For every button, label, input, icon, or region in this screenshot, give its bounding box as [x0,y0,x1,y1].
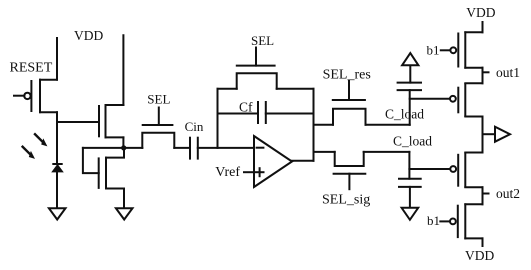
light arrows [23,134,48,159]
wire photodiode to ground [56,172,58,208]
wire feedback left vertical [217,89,219,148]
wire C_load bottom vertical [408,152,410,179]
wire output to SEL_sig [314,151,335,153]
transistor out1 driver (PMOS) [450,83,483,116]
buffer triangle [495,127,510,142]
svg-text:b1: b1 [427,213,440,228]
svg-text:SEL: SEL [147,91,170,106]
capacitor Cin [190,138,198,159]
wire VDD to b1 transistor [482,22,484,32]
svg-text:SEL_sig: SEL_sig [322,193,370,208]
transistor RESET (PMOS) [14,80,57,113]
wire RESET source to photodiode [56,112,58,164]
capacitor Cf [258,102,266,123]
wire photodiode node to M1 gate [57,121,99,123]
svg-text:out2: out2 [496,186,520,201]
wire M2 source to ground [123,189,125,209]
wire capacitor to supply arrow [409,65,411,82]
wire SEL to Cin [174,147,190,149]
buffer tick [483,133,496,135]
ground (M2) [116,208,133,219]
wire C_load top vertical [409,90,411,125]
transistor b1 top (PMOS bias) [441,32,483,67]
transistor M1 (source follower) [99,105,123,137]
power arrow (up triangle) [402,53,418,65]
wire feedback right vertical [313,89,315,161]
transistor SEL_sig [334,152,366,189]
capacitor C_load (top) [398,83,421,91]
wire feedback top right [277,88,314,90]
transistor SEL feedback switch [237,48,277,89]
op-amp U1 [254,136,292,187]
out1 tick [483,71,489,73]
transistor SEL pass gate [142,108,174,148]
svg-text:RESET: RESET [10,60,53,75]
svg-text:SEL_res: SEL_res [323,68,371,83]
photodiode D1 [53,164,62,171]
svg-text:VDD: VDD [74,28,103,43]
svg-text:SEL: SEL [251,33,274,48]
svg-text:out1: out1 [496,65,520,80]
svg-text:Vref: Vref [215,165,240,180]
wire M1 drain to VDD [122,35,124,105]
wire to VDD bottom [482,238,484,246]
wire Vref to non-inverting input [244,171,254,173]
transistor SEL_res [333,81,366,125]
node dot [121,145,126,150]
wire SEL_sig to C_load bottom [364,151,410,153]
svg-text:Cin: Cin [185,119,204,134]
ground (photodiode) [49,208,66,219]
svg-text:C_load: C_load [385,106,424,121]
wire feedback top left [218,88,237,90]
svg-text:VDD: VDD [465,248,494,263]
wire capacitor to ground [409,187,411,208]
wire op-amp output [292,160,314,162]
ground (C_load) [402,208,419,220]
svg-text:Cf: Cf [239,100,253,115]
transistor out2 driver (PMOS) [450,153,482,188]
wire out1 node [482,68,484,84]
wire SEL_res to C_load top [366,124,410,126]
wire gate branch to out2 driver [409,168,449,170]
svg-text:b1: b1 [427,42,440,57]
wire gate branch to out1 driver [410,98,450,100]
wire output to SEL_res [314,124,334,126]
wire RESET drain to VDD [56,38,58,80]
wire Cf right [266,113,314,115]
wire M1 source to node [122,137,124,148]
svg-text:C_load: C_load [393,134,432,149]
wire node line [83,147,142,149]
wire out2 node [482,187,484,204]
wire out1 driver to buffer node [482,117,484,153]
transistor M2 (diode-connected load) [83,148,124,189]
svg-text:VDD: VDD [466,5,495,20]
transistor b1 bottom (PMOS bias) [440,204,482,238]
out2 tick [483,193,489,195]
wire Cin to op-amp inverting input [198,147,254,149]
wire Cf left [218,113,259,115]
capacitor C_load (bottom) [399,179,421,187]
